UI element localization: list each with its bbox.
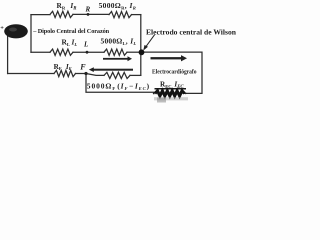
- svg-text:L: L: [83, 41, 88, 49]
- current arrow (I_F - I_EC) (above 5000ohm_F, pointing left): [89, 67, 133, 72]
- wire: middle row left segment: [31, 51, 50, 53]
- resistor R_R: [50, 11, 73, 17]
- svg-text:Electrodo central de Wilson: Electrodo central de Wilson: [146, 27, 236, 36]
- wire: Wilson junction to electrocardiograph (right loop): [141, 52, 202, 93]
- wire: middle row right segment to junction: [127, 51, 141, 53]
- wire: bottom row segment to node F: [76, 73, 87, 75]
- wire: left inner vertical (dipole minus pole to top/middle rows): [30, 15, 32, 53]
- svg-text:5000ΩR,IR: 5000ΩR,IR: [99, 1, 137, 10]
- wire: top row right segment to corner: [132, 14, 141, 16]
- current arrow I_L (under 5000ohm_L, pointing right): [103, 56, 132, 61]
- node R: [87, 13, 90, 16]
- wire: dipole plus pole down left side: [7, 35, 9, 74]
- resistor R_EC (electrocardiograph, bold): [155, 91, 185, 96]
- node F: [84, 72, 87, 75]
- shadow under R_EC: [154, 97, 188, 100]
- lead dot left of R_EC: [153, 92, 155, 94]
- resistor R_L: [50, 49, 73, 55]
- svg-text:+: +: [0, 24, 4, 31]
- wire: node F to 5000ohm_F: [86, 74, 104, 76]
- node: Wilson central terminal junction: [139, 49, 145, 55]
- wire: middle row middle segment through node L: [73, 51, 104, 53]
- resistor 5000ohm_R: [109, 12, 132, 18]
- wire: electrocardiograph bottom return to node F: [86, 74, 156, 93]
- dipole ellipse (heart dipole): [4, 24, 28, 38]
- svg-text:– Dipolo Central del Corazón: – Dipolo Central del Corazón: [32, 28, 109, 35]
- lead dot right of R_EC: [185, 93, 187, 95]
- svg-text:F: F: [79, 63, 86, 72]
- shadow blob left under R_EC: [157, 98, 166, 103]
- wire: bottom row left segment: [8, 73, 54, 75]
- underline bar of R_EC label: [155, 88, 187, 90]
- wire: top row left segment: [31, 14, 50, 16]
- pointer arrow from "Electrodo central de Wilson" to junction: [143, 35, 154, 51]
- resistor R_F: [54, 70, 76, 76]
- resistor 5000ohm_L: [104, 49, 127, 55]
- wire: 5000ohm_F to main vertical corner: [130, 74, 141, 76]
- wire: top row middle segment through node R: [73, 13, 109, 15]
- svg-text:R: R: [85, 6, 91, 14]
- current arrow I_EC (under junction wire, pointing right): [151, 55, 188, 61]
- svg-text:5000ΩL,IL: 5000ΩL,IL: [101, 37, 137, 46]
- resistor 5000ohm_F: [104, 72, 130, 78]
- node L: [86, 51, 89, 54]
- wire: main right vertical (top row to bottom row through Wilson junction): [140, 15, 142, 76]
- svg-text:Electrocardiógrafo: Electrocardiógrafo: [152, 70, 197, 76]
